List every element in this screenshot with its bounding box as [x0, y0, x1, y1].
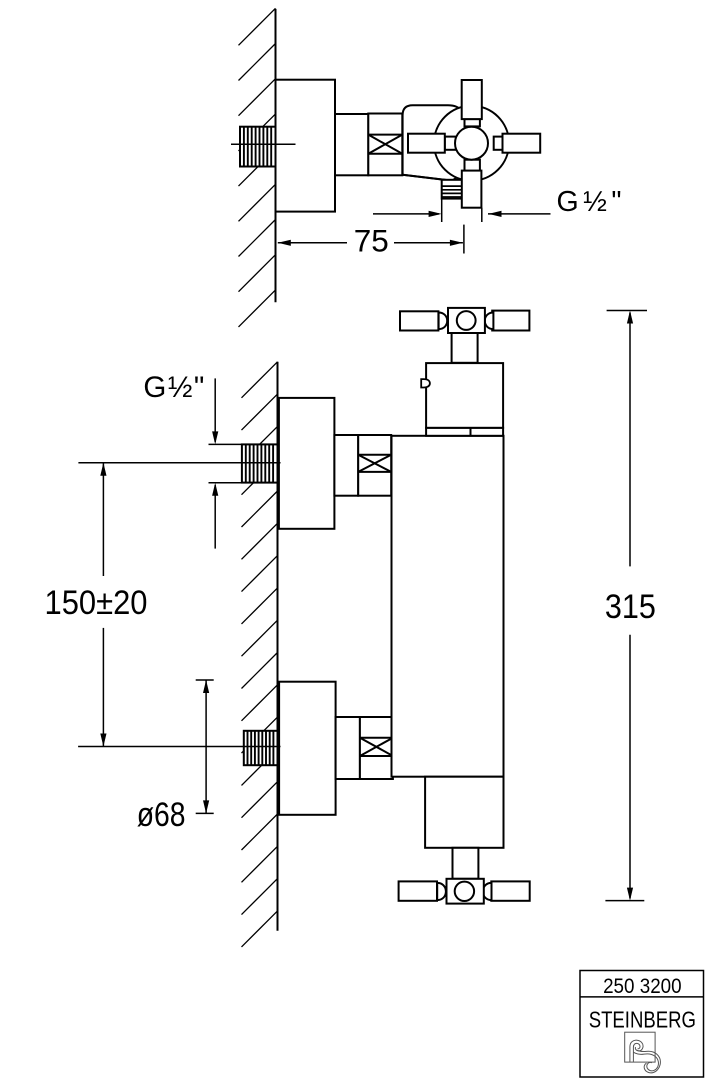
top handle left ear (lower view)	[439, 313, 448, 330]
handle top stem (top view)	[465, 119, 480, 126]
upper escutcheon (lower view)	[279, 398, 335, 529]
centerline of inlet (top view)	[231, 143, 296, 145]
svg-text:150±20: 150±20	[45, 584, 148, 622]
svg-text:G½": G½"	[143, 371, 204, 404]
wall line (lower view)	[277, 362, 279, 931]
dimension 150±20: line and arrows	[100, 463, 106, 747]
top handle right ear (lower view)	[485, 313, 494, 330]
logo S squiggle outer line	[630, 1040, 643, 1062]
top handle right spoke (lower view)	[492, 311, 529, 331]
cartridge box with X (top view)	[368, 114, 402, 176]
upper inlet centerline (lower view)	[78, 462, 280, 464]
handle bottom spoke / outlet front (top view)	[462, 171, 482, 208]
bonnet clip tab (lower view)	[421, 379, 430, 387]
top handle hub circle (lower view)	[457, 311, 476, 330]
main column body (lower view)	[392, 436, 504, 777]
top bonnet flange (lower view)	[426, 428, 503, 436]
handle disc (top view)	[434, 106, 509, 181]
handle bottom stem (top view)	[465, 160, 480, 171]
lower cartridge box with X (lower view)	[360, 717, 393, 779]
nipple top extension tick (lower view)	[209, 443, 242, 445]
bottom handle left spoke (lower view)	[399, 881, 437, 900]
logo square	[625, 1032, 655, 1062]
lower valve neck (lower view)	[336, 717, 360, 779]
dimension G1/2 leader arrows (lower view)	[212, 378, 218, 548]
bottom end cap (lower view)	[425, 777, 503, 848]
handle right stem (top view)	[494, 137, 503, 150]
svg-text:75: 75	[354, 223, 389, 259]
wall hatching (top view)	[239, 8, 276, 327]
wall line (top view)	[275, 9, 277, 302]
extension line right of outlet (top view)	[481, 208, 483, 222]
handle left stem (top view)	[445, 137, 456, 150]
bottom handle right spoke (lower view)	[491, 881, 529, 900]
svg-text:250 3200: 250 3200	[603, 975, 682, 998]
valve body (top view)	[403, 105, 465, 181]
upper threaded nipple G1/2 (lower view)	[242, 444, 278, 482]
dimension G1/2 outlet (top view): line and arrows	[373, 211, 551, 217]
upper cartridge box with X (lower view)	[358, 435, 391, 496]
logo S squiggle lower wave	[633, 1050, 660, 1073]
threaded outlet G1/2 (top view)	[442, 180, 462, 199]
handle hub (top view)	[455, 127, 488, 160]
svg-text:G½": G½"	[557, 186, 622, 218]
lower escutcheon (lower view)	[279, 682, 336, 815]
top handle center block (lower view)	[448, 308, 485, 333]
svg-text:315: 315	[605, 588, 656, 626]
title block box	[580, 971, 704, 1078]
upper valve neck (lower view)	[334, 435, 358, 496]
top handle stem (lower view)	[452, 333, 478, 363]
dimension ø68: ticks, line and arrows	[196, 680, 214, 813]
nipple bottom extension tick (lower view)	[209, 482, 242, 484]
valve neck (top view)	[335, 114, 368, 175]
dimension 315: ticks, line and arrows	[605, 311, 647, 901]
handle left spoke (top view)	[408, 134, 445, 153]
svg-text:STEINBERG: STEINBERG	[589, 1007, 696, 1033]
extension line left of outlet (top view)	[441, 199, 443, 222]
lower inlet centerline (lower view)	[78, 746, 280, 748]
escutcheon plate (top view)	[276, 80, 336, 212]
lower threaded nipple G1/2 (lower view)	[244, 731, 278, 765]
bottom handle right ear (lower view)	[483, 883, 492, 900]
wall hatching (lower view)	[242, 362, 278, 947]
top handle left spoke (lower view)	[400, 311, 438, 330]
valve body bottom slant line (top view)	[403, 175, 455, 181]
title block divider	[580, 996, 704, 998]
handle top spoke (top view)	[462, 80, 482, 119]
extension line outlet center for 75 (top view)	[463, 225, 465, 254]
svg-text:ø68: ø68	[137, 796, 186, 834]
dimension 75: line and arrows	[278, 240, 463, 246]
handle right spoke (top view)	[503, 134, 541, 153]
bottom handle stem (lower view)	[453, 848, 479, 879]
bottom handle hub circle (lower view)	[455, 882, 474, 901]
top bonnet (lower view)	[426, 363, 503, 428]
bottom handle left ear (lower view)	[437, 883, 446, 900]
bottom handle center block (lower view)	[447, 879, 484, 904]
threaded nipple G1/2 (top view)	[240, 127, 276, 167]
